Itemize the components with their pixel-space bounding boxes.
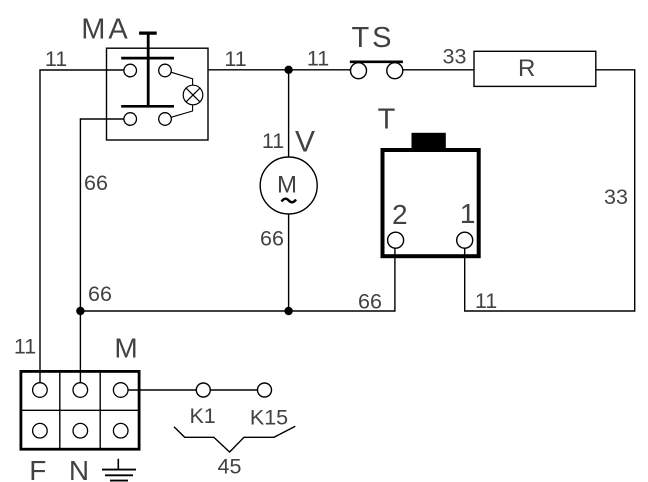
M block circle bottom 1 <box>33 423 48 438</box>
svg-text:11: 11 <box>14 335 36 359</box>
svg-text:66: 66 <box>358 289 382 313</box>
svg-text:M: M <box>277 172 297 199</box>
node junction dot 66 bus motor <box>284 307 292 315</box>
svg-text:11: 11 <box>307 47 329 71</box>
svg-text:R: R <box>518 55 535 82</box>
svg-text:33: 33 <box>443 45 467 69</box>
wire 66 (MA lower pin down to 66 bus) <box>80 119 124 383</box>
wire lamp upper link <box>171 72 192 85</box>
M block circle bottom 2 <box>73 423 88 438</box>
svg-text:11: 11 <box>45 47 67 71</box>
MA terminal top-left <box>124 64 137 77</box>
ground symbol <box>102 459 136 481</box>
M block circle N <box>73 383 88 398</box>
lamp inside MA <box>183 85 203 105</box>
resistor R box <box>474 51 596 86</box>
wire lamp lower link <box>171 105 192 118</box>
svg-text:K1: K1 <box>189 404 215 428</box>
T pin 2 circle <box>388 232 404 248</box>
M block circle F <box>33 383 48 398</box>
svg-text:2: 2 <box>392 199 408 230</box>
wire 33 (TS to R) <box>403 69 474 71</box>
svg-text:45: 45 <box>218 455 242 479</box>
thermal switch TS contact bar <box>350 60 403 63</box>
M block circle bottom 3 <box>113 423 128 438</box>
M block circle out <box>113 383 128 398</box>
svg-text:66: 66 <box>84 171 108 195</box>
svg-text:1: 1 <box>460 198 476 229</box>
svg-text:11: 11 <box>224 47 246 71</box>
svg-text:33: 33 <box>604 185 628 209</box>
wire 33/11 right loop (R to T pin 1) <box>465 70 635 311</box>
svg-text:MA: MA <box>81 14 131 46</box>
wire 11 top bus (MA to TS) <box>208 69 350 71</box>
motor tilde <box>282 199 297 203</box>
timer T top tab <box>412 133 446 149</box>
TS terminal left <box>351 63 367 79</box>
wire (M connector to K1) <box>128 389 196 391</box>
MA terminal top-right <box>159 64 172 77</box>
svg-text:TS: TS <box>351 22 394 54</box>
motor V circle <box>260 157 317 214</box>
svg-text:K15: K15 <box>250 406 288 430</box>
MA terminal bottom-right <box>159 113 172 126</box>
svg-text:M: M <box>114 332 137 363</box>
node junction dot 66 bus left <box>76 307 84 315</box>
node junction dot top <box>284 66 292 74</box>
timer T box <box>383 150 479 256</box>
connector 45 bracket <box>174 426 295 452</box>
MA actuator plunger <box>121 32 174 108</box>
svg-text:66: 66 <box>88 282 112 306</box>
svg-text:66: 66 <box>260 226 284 250</box>
T pin 1 circle <box>457 232 473 248</box>
svg-text:T: T <box>378 104 396 136</box>
terminal K1 <box>196 383 210 397</box>
terminal K15 <box>258 383 272 397</box>
svg-text:F: F <box>29 455 46 482</box>
wire 11 (junction down to motor V) <box>288 70 290 157</box>
wire 66 (motor V down to 66 bus) <box>288 214 290 311</box>
svg-text:11: 11 <box>262 129 284 153</box>
svg-text:N: N <box>69 455 89 482</box>
svg-text:V: V <box>295 125 315 158</box>
switch MA box <box>107 48 209 140</box>
svg-text:11: 11 <box>475 289 497 313</box>
TS terminal right <box>387 63 403 79</box>
MA terminal bottom-left <box>124 113 137 126</box>
wire 66 bus (to T pin 2) <box>80 248 395 311</box>
connector block M <box>21 371 139 449</box>
wire (K1 to K15) <box>210 389 257 391</box>
wire 11 left (MA pin to M connector) <box>40 70 124 383</box>
